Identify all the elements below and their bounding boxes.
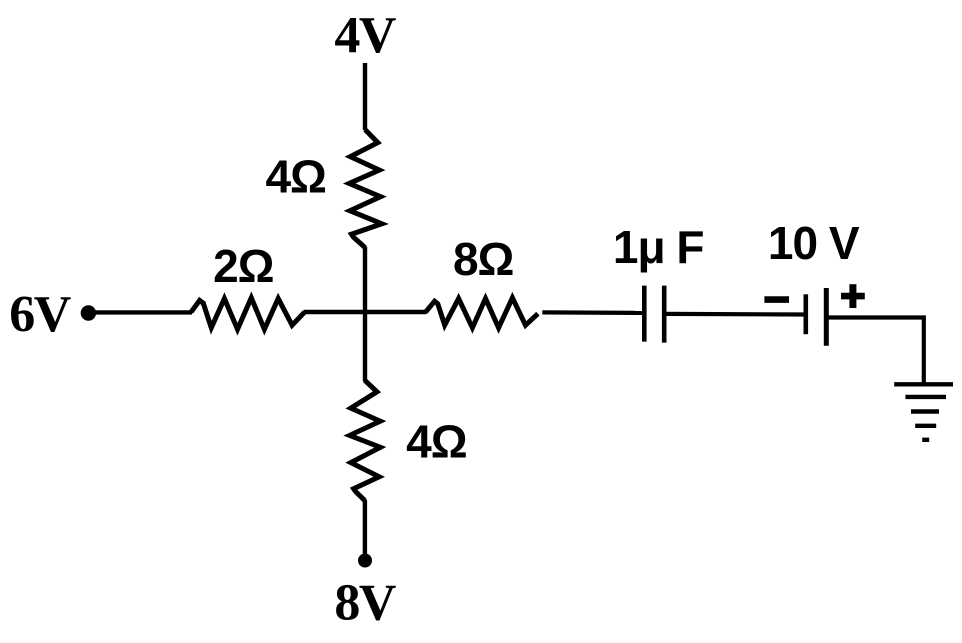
wire 8Ω to capacitor xyxy=(542,310,642,315)
label 6V (left source) xyxy=(9,286,71,343)
label 4Ω (top resistor value) xyxy=(265,150,326,202)
svg-text:10 V: 10 V xyxy=(768,217,860,269)
minus sign xyxy=(764,296,789,303)
svg-text:6V: 6V xyxy=(9,286,71,343)
wire capacitor to battery xyxy=(666,312,804,317)
resistor R4 4Ω (bottom) xyxy=(350,380,381,500)
svg-text:4V: 4V xyxy=(334,7,396,64)
label 1µF (capacitor value) xyxy=(613,221,704,273)
wire vertical center (through junction) xyxy=(363,247,367,382)
svg-text:2Ω: 2Ω xyxy=(213,240,274,292)
label 2Ω (left resistor value) xyxy=(213,240,274,292)
node 8V terminal dot xyxy=(358,554,372,568)
wire center-left (2Ω to junction to 8Ω) xyxy=(304,310,427,314)
resistor R1 4Ω (top) xyxy=(349,130,382,248)
label 8V (bottom source) xyxy=(334,575,396,632)
label 4V (top source) xyxy=(334,7,396,64)
plus sign xyxy=(841,293,865,300)
svg-text:4Ω: 4Ω xyxy=(265,150,326,202)
svg-text:8Ω: 8Ω xyxy=(453,233,514,285)
capacitor C1 1µF xyxy=(644,286,664,343)
node 6V terminal dot xyxy=(81,305,96,320)
resistor R3 8Ω (right) xyxy=(426,298,538,328)
svg-text:8V: 8V xyxy=(334,575,396,632)
label 4Ω (bottom resistor value) xyxy=(406,416,467,468)
wire left (6V lead) xyxy=(93,310,192,314)
label 8Ω (right resistor value) xyxy=(453,233,514,285)
label 10 V (battery value) xyxy=(768,217,860,269)
ground xyxy=(894,384,953,440)
positive (long) plate xyxy=(824,288,829,346)
wire top (4V lead) xyxy=(363,63,367,130)
wire bottom (8V lead) xyxy=(363,500,367,557)
svg-text:1μ F: 1μ F xyxy=(613,221,704,273)
wire battery to ground corner xyxy=(829,315,924,384)
resistor R2 2Ω (left) xyxy=(191,298,305,330)
negative (short) plate xyxy=(803,294,808,334)
battery V1 10V xyxy=(764,284,864,346)
svg-text:4Ω: 4Ω xyxy=(406,416,467,468)
